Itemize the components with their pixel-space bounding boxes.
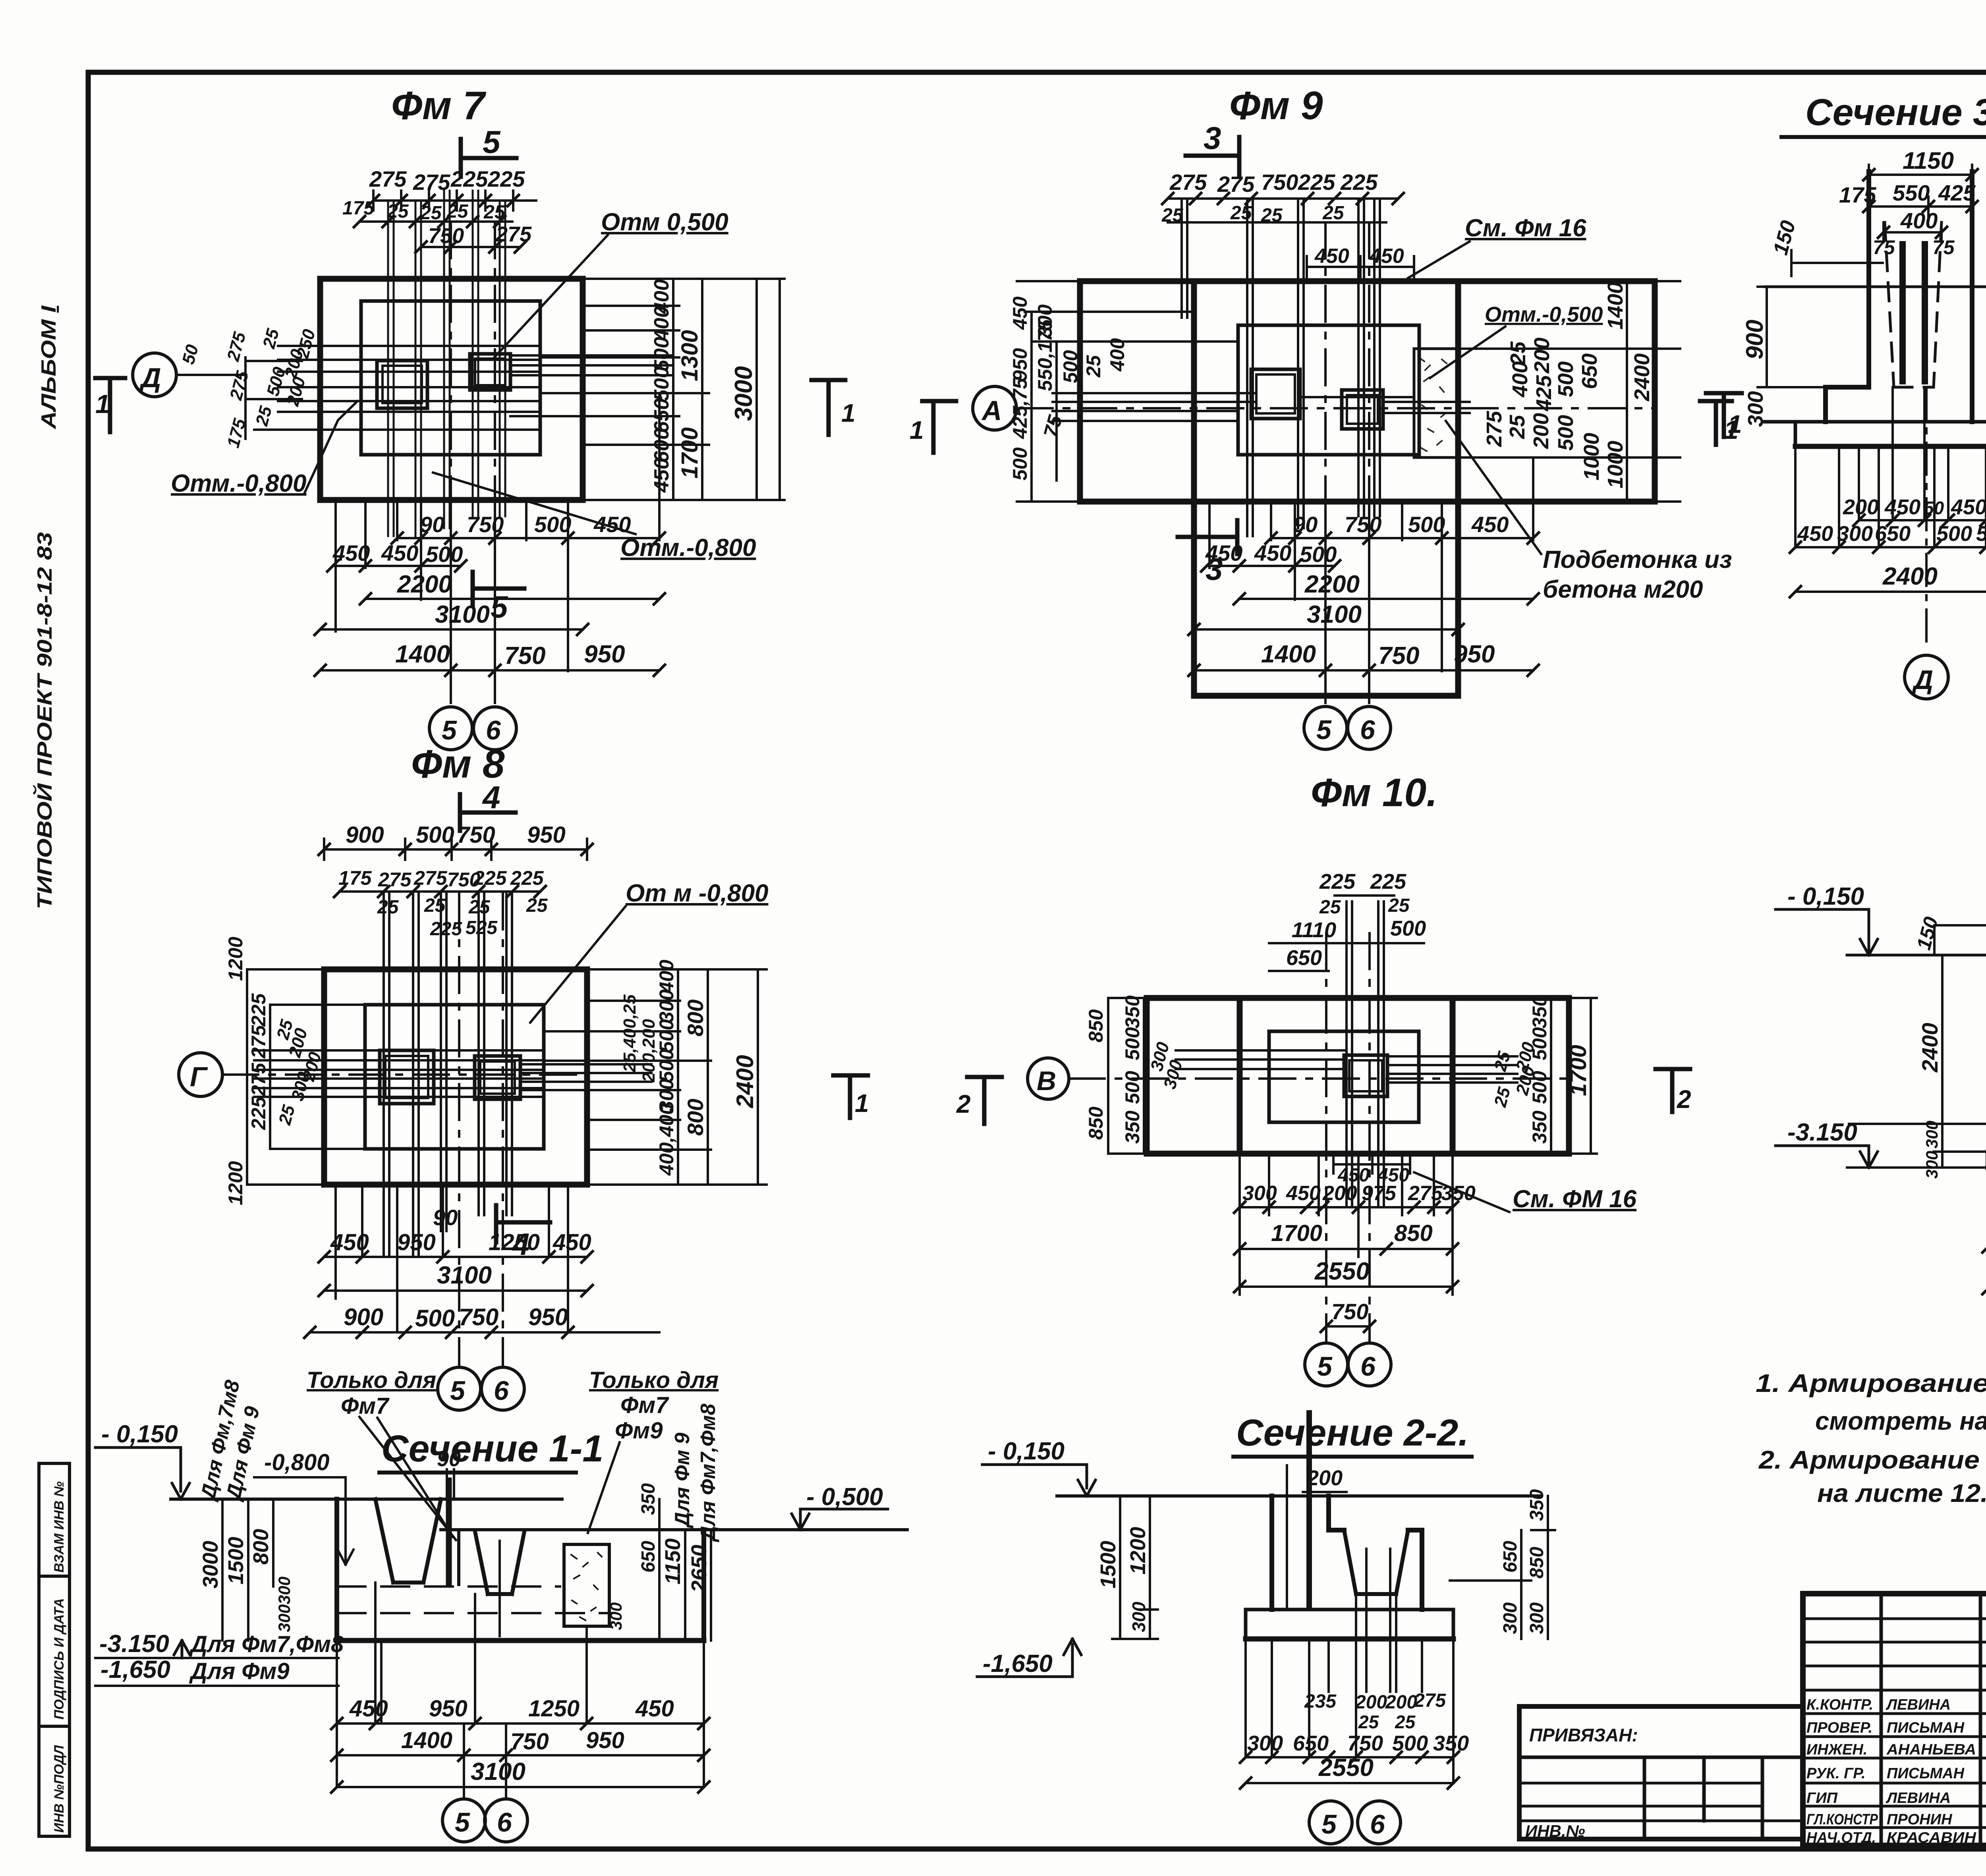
column K2 Фм8: [475, 1056, 520, 1099]
svg-text:235: 235: [1304, 1691, 1337, 1712]
bottom extension verticals Фм10: [1240, 1154, 1453, 1295]
svg-text:350: 350: [638, 1483, 659, 1515]
svg-text:ПОДПИСЬ И ДАТА: ПОДПИСЬ И ДАТА: [52, 1598, 67, 1720]
section mark 1T left: [95, 378, 125, 432]
section cut mark 3 top: [1186, 137, 1239, 175]
svg-text:75: 75: [1873, 236, 1895, 259]
svg-text:500: 500: [650, 337, 673, 371]
svg-text:1: 1: [1728, 410, 1742, 438]
bottom dim row 1400 750 950 Фм9: [1194, 669, 1533, 672]
dim 300 left: [1744, 391, 1768, 427]
svg-text:ЛЕВИНА: ЛЕВИНА: [1886, 1697, 1951, 1713]
svg-text:Д: Д: [139, 362, 161, 393]
svg-text:550,175: 550,175: [1034, 319, 1056, 391]
svg-text:1200: 1200: [224, 1161, 247, 1205]
svg-text:3100: 3100: [437, 1262, 492, 1289]
bottom extension verticals Фм7: [336, 393, 659, 671]
svg-text:950: 950: [1454, 641, 1495, 668]
dim 1150: [1869, 165, 1972, 185]
svg-text:1400: 1400: [401, 1727, 452, 1753]
svg-text:Г: Г: [190, 1061, 208, 1092]
right extension lines Фм8: [520, 969, 767, 1185]
svg-text:500: 500: [534, 512, 571, 537]
svg-text:2: 2: [1677, 1085, 1691, 1114]
right dims s22: [1450, 1496, 1555, 1639]
slab outline Фм10: [1147, 998, 1569, 1154]
ground line -0.150 section 3-3: [1765, 286, 1986, 288]
svg-text:500: 500: [1390, 917, 1426, 940]
svg-text:6: 6: [486, 715, 501, 745]
svg-text:Отм.-0,500: Отм.-0,500: [1485, 303, 1603, 326]
svg-text:450: 450: [381, 540, 418, 566]
axis verticals 5 6 Фм10: [1326, 933, 1370, 1343]
svg-text:2400: 2400: [1917, 1023, 1942, 1073]
Отм 0,500 label: [601, 208, 728, 236]
svg-text:Фм 10.: Фм 10.: [1311, 770, 1437, 815]
dim 2400 s33: [1795, 591, 1986, 593]
svg-text:25: 25: [275, 1103, 299, 1127]
svg-text:450: 450: [1009, 296, 1031, 330]
svg-text:6: 6: [1370, 1809, 1385, 1839]
svg-text:См. ФМ 16: См. ФМ 16: [1513, 1185, 1637, 1213]
bottom section mark 3: [1178, 520, 1237, 554]
left dim ladder lines Фм7: [245, 357, 361, 439]
section mark T2 right of Фм10: [1656, 1069, 1690, 1112]
column K2 Фм7: [470, 354, 510, 390]
bottom dim row 450 950 1250 450: [324, 1256, 587, 1258]
svg-text:1: 1: [841, 399, 856, 427]
axis circle 5 Фм8: [438, 1367, 481, 1410]
svg-text:6: 6: [494, 1376, 509, 1406]
bottom dim row 900 500 750 950 Фм8: [310, 1331, 659, 1334]
axis circle В: [1028, 1058, 1069, 1099]
left dim labels Фм9: [1009, 296, 1128, 481]
От м -0,800 label: [626, 880, 768, 907]
svg-text:750: 750: [1378, 642, 1419, 670]
dim 200 s22: [1306, 1466, 1343, 1490]
svg-text:275: 275: [247, 1062, 270, 1096]
slab outline 3-3: [1765, 422, 1986, 446]
hatched concrete pier s11: [564, 1544, 609, 1626]
svg-text:450: 450: [1314, 245, 1349, 268]
level mark -0,150 s55: [1775, 909, 1878, 955]
label -0,800 s11: [264, 1449, 329, 1475]
dims 450 300 650 500 500: [1795, 546, 1986, 548]
svg-text:500: 500: [650, 367, 673, 401]
svg-text:Фм7: Фм7: [620, 1392, 669, 1418]
bottom dim row 1400 750 950 s11: [337, 1754, 704, 1756]
svg-text:300: 300: [1242, 1182, 1277, 1205]
svg-text:1500: 1500: [224, 1537, 248, 1585]
svg-text:950: 950: [584, 641, 625, 668]
svg-text:850: 850: [1085, 1106, 1107, 1140]
axis Д leader line: [176, 374, 246, 376]
svg-text:ИНЖЕН.: ИНЖЕН.: [1806, 1741, 1867, 1758]
svg-text:650: 650: [1500, 1541, 1521, 1573]
label См. ФМ 16 Фм10: [1513, 1185, 1637, 1213]
section cut mark 5 (top): [461, 139, 516, 177]
axis circle 5 s22: [1309, 1801, 1352, 1844]
svg-text:650: 650: [1875, 522, 1911, 546]
svg-text:АНАНЬЕВА: АНАНЬЕВА: [1886, 1741, 1976, 1758]
svg-text:750: 750: [428, 224, 464, 248]
left bottom stamp column boxes: [39, 1463, 70, 1836]
dim 150 left: [1791, 250, 1883, 276]
svg-text:ТИПОВОЙ ПРОЕКТ 901-8-12 83: ТИПОВОЙ ПРОЕКТ 901-8-12 83: [33, 532, 56, 909]
svg-text:5: 5: [450, 1376, 466, 1406]
svg-text:900: 900: [1741, 320, 1768, 359]
left stamp column labels: [52, 1481, 67, 1833]
dim 400: [1884, 222, 1942, 242]
svg-text:225: 225: [1340, 170, 1378, 195]
socket 1 s11: [375, 1499, 441, 1583]
note line 1: [1756, 1369, 1986, 1397]
svg-text:АЛЬБОМ I: АЛЬБОМ I: [37, 305, 60, 430]
svg-text:500: 500: [1059, 350, 1082, 383]
svg-text:350: 350: [1121, 1110, 1144, 1144]
axis circle 5 Фм10: [1305, 1343, 1348, 1386]
svg-text:200: 200: [283, 374, 309, 408]
label Отм.-0,500: [1485, 303, 1603, 326]
bottom extension verticals Фм8: [336, 1185, 568, 1332]
svg-text:1500: 1500: [1096, 1541, 1120, 1588]
svg-text:400: 400: [655, 959, 678, 993]
svg-text:350: 350: [1121, 995, 1144, 1029]
svg-text:400: 400: [1508, 361, 1532, 398]
rebar horizontals Фм9: [1053, 393, 1470, 421]
svg-text:200: 200: [1529, 413, 1553, 449]
svg-text:Сечение 2-2.: Сечение 2-2.: [1236, 1412, 1469, 1454]
left small dims Фм7: [178, 326, 319, 450]
left margin vertical label: ТИПОВОЙ ПРОЕКТ 901-8-12.83: [33, 532, 56, 909]
note line 3: [1758, 1446, 1986, 1474]
Фм9 title: [1229, 83, 1323, 128]
svg-text:- 0,500: - 0,500: [806, 1483, 883, 1511]
right rotated labels s11: [671, 1404, 720, 1542]
svg-text:25: 25: [259, 326, 283, 351]
svg-text:550: 550: [1893, 180, 1930, 205]
dim 75 75: [1873, 236, 1955, 259]
svg-text:225: 225: [1370, 870, 1406, 894]
svg-text:950: 950: [527, 822, 566, 848]
svg-text:1400: 1400: [1603, 282, 1627, 330]
svg-text:500: 500: [1554, 361, 1578, 397]
svg-text:425: 425: [1532, 375, 1556, 411]
svg-text:3100: 3100: [435, 601, 490, 628]
leader from Только для Фм7 to socket s11: [359, 1417, 456, 1540]
svg-text:ПРИВЯЗАН:: ПРИВЯЗАН:: [1529, 1725, 1638, 1745]
bottom dim 3100: [320, 628, 583, 631]
label См.Фм16: [1465, 214, 1586, 242]
svg-text:500: 500: [1009, 447, 1031, 481]
svg-text:750: 750: [504, 642, 545, 670]
svg-text:Для Фм7,Фм8: Для Фм7,Фм8: [189, 1631, 344, 1657]
svg-text:300: 300: [655, 989, 678, 1023]
level mark -0,500 s11: [792, 1509, 888, 1530]
svg-text:850: 850: [1085, 1009, 1107, 1042]
svg-text:3100: 3100: [1307, 601, 1362, 628]
axis line 5 vertical: [450, 222, 452, 708]
svg-text:75: 75: [1039, 412, 1067, 440]
axis line 6 vertical Фм9: [1368, 222, 1370, 707]
bottom section mark 5: [473, 572, 524, 606]
svg-text:275: 275: [1169, 170, 1207, 195]
axis circle 6 Фм9: [1348, 706, 1391, 749]
svg-text:300: 300: [275, 1604, 294, 1632]
bottom dim 3100 Фм9: [1194, 628, 1458, 631]
svg-text:450: 450: [593, 512, 631, 537]
rebar verticals Фм10: [1347, 901, 1384, 1205]
svg-text:25: 25: [1490, 1085, 1514, 1109]
dim 175 550 425: [1869, 197, 1972, 216]
svg-text:3000: 3000: [730, 366, 757, 421]
axis circle Д: [133, 353, 176, 397]
section mark 2T right of Фм8: [967, 1077, 1002, 1124]
svg-text:500: 500: [655, 1019, 678, 1052]
От м -0,800 leader: [530, 906, 626, 1023]
svg-text:450: 450: [1471, 512, 1509, 537]
svg-text:ГИП: ГИП: [1806, 1790, 1838, 1807]
svg-text:1000: 1000: [1603, 441, 1627, 488]
svg-text:Для Фм7,Фм8: Для Фм7,Фм8: [697, 1404, 720, 1542]
svg-text:500: 500: [415, 1305, 455, 1332]
svg-text:1: 1: [855, 1089, 869, 1117]
svg-text:300: 300: [1128, 1602, 1149, 1632]
svg-text:Фм7: Фм7: [341, 1393, 390, 1419]
svg-text:275: 275: [413, 170, 450, 195]
svg-text:К.КОНТР.: К.КОНТР.: [1806, 1697, 1873, 1713]
svg-text:450: 450: [650, 458, 673, 493]
ground line top s11: [171, 1498, 562, 1501]
bottom dim row 450 950 1250 450 s11: [337, 1722, 704, 1725]
Фм10 title: [1311, 770, 1437, 815]
svg-text:275: 275: [1408, 1182, 1443, 1205]
svg-text:90: 90: [433, 1205, 458, 1230]
svg-text:350: 350: [1526, 1489, 1547, 1521]
svg-text:500: 500: [1300, 542, 1337, 567]
svg-text:300: 300: [1922, 1151, 1941, 1179]
dim 150 s55: [1934, 925, 1986, 955]
svg-text:450: 450: [1951, 495, 1986, 519]
svg-text:500: 500: [1121, 1027, 1144, 1060]
Фм8 title: [411, 742, 505, 786]
rebar horizontals Фм10: [1176, 1050, 1517, 1083]
section mark 1T left of Фм9: [922, 401, 956, 453]
title block left grid: [1803, 1594, 1986, 1845]
step outline Фм9: [1238, 325, 1419, 455]
svg-text:25: 25: [1230, 203, 1252, 224]
right label leader: [588, 1442, 620, 1533]
ground line s55: [1847, 954, 1986, 957]
svg-text:1. Армирование фундаментов Фм: 1. Армирование фундаментов Фм 7, Фм 8, Ф…: [1756, 1369, 1986, 1397]
svg-text:6: 6: [497, 1807, 512, 1837]
note line 4: [1817, 1479, 1986, 1507]
svg-text:850: 850: [1526, 1547, 1547, 1579]
svg-text:Для Фм9: Для Фм9: [189, 1658, 290, 1684]
svg-text:225: 225: [473, 867, 507, 889]
svg-text:25: 25: [377, 897, 399, 918]
slab s22: [1246, 1610, 1453, 1639]
column K1 Фм7: [377, 361, 427, 408]
svg-text:750: 750: [1347, 1731, 1383, 1755]
svg-text:ИНВ №ПОДЛ: ИНВ №ПОДЛ: [52, 1745, 67, 1833]
column Фм10: [1344, 1055, 1387, 1096]
svg-text:750: 750: [1331, 1299, 1368, 1324]
dim ticks s22: [1240, 1752, 1459, 1789]
svg-text:5: 5: [442, 715, 457, 745]
svg-text:500: 500: [1392, 1731, 1428, 1755]
svg-text:1200: 1200: [1126, 1527, 1150, 1575]
svg-text:1250: 1250: [528, 1696, 580, 1722]
См.Фм16 leader: [1408, 241, 1470, 278]
axis circle 6 Фм10: [1348, 1343, 1391, 1386]
bottom dim row 2 Фм7: [333, 565, 461, 567]
svg-text:1700: 1700: [1565, 1045, 1591, 1096]
svg-text:ГЛ.КОНСТР: ГЛ.КОНСТР: [1806, 1811, 1878, 1828]
svg-text:200,200: 200,200: [639, 1019, 659, 1083]
svg-text:2. Армирование фундамента Фм 1: 2. Армирование фундамента Фм 10 смотреть: [1758, 1446, 1986, 1474]
svg-text:1300: 1300: [677, 330, 703, 381]
svg-text:350: 350: [1528, 1110, 1551, 1144]
axis circle Д s33: [1905, 655, 1948, 699]
svg-text:300: 300: [1744, 391, 1768, 427]
Фм7 title: [391, 83, 487, 128]
rebar horizontals Фм7: [278, 346, 672, 430]
svg-text:- 0,150: - 0,150: [1787, 883, 1864, 910]
step outline Фм8: [365, 1005, 544, 1149]
title block outer box: [1803, 1594, 1986, 1845]
svg-text:950: 950: [1009, 348, 1031, 381]
svg-text:-3.150: -3.150: [1787, 1119, 1857, 1146]
label Подбетонка: [1543, 546, 1732, 603]
Отм.-0,800 label (center): [620, 534, 756, 562]
bottom dims 235 200 200 275 s22: [1304, 1690, 1446, 1713]
svg-text:650: 650: [650, 398, 673, 433]
svg-text:650: 650: [638, 1541, 659, 1573]
svg-text:25,400,25: 25,400,25: [620, 994, 639, 1073]
svg-text:225: 225: [247, 1096, 270, 1130]
svg-text:Только для: Только для: [307, 1367, 436, 1393]
svg-text:2400: 2400: [1882, 563, 1938, 590]
privyazan box: [1519, 1706, 1803, 1839]
svg-text:275: 275: [1414, 1690, 1446, 1711]
ledge between sockets s11: [441, 1530, 475, 1585]
label Только для Фм7 Фм9 (right): [589, 1367, 719, 1444]
svg-text:ПРОНИН: ПРОНИН: [1887, 1811, 1953, 1828]
svg-text:450: 450: [635, 1696, 674, 1722]
svg-text:2200: 2200: [397, 571, 452, 598]
axis circle А: [973, 386, 1016, 430]
axis Г horizontal dash line: [222, 1073, 587, 1076]
svg-text:750: 750: [459, 1304, 498, 1330]
svg-text:РУК. ГР.: РУК. ГР.: [1806, 1765, 1866, 1782]
bottom extension verticals Фм9: [1209, 457, 1533, 671]
dim ticks fm9: [1162, 193, 1539, 676]
rebar verticals Фм8: [384, 894, 512, 1255]
svg-text:В: В: [1037, 1066, 1056, 1096]
axis circle 6 s11: [485, 1799, 527, 1842]
section mark T1 left: [1706, 393, 1742, 437]
top dim row 25s: [377, 895, 548, 918]
svg-text:800: 800: [683, 1099, 708, 1136]
svg-text:450: 450: [1369, 245, 1404, 268]
left dim chain s11: [222, 1499, 273, 1641]
left dim rotated labels Фм8: [224, 937, 325, 1205]
-3.150 underline s11: [95, 1641, 338, 1658]
svg-text:350: 350: [1528, 995, 1551, 1029]
svg-text:Подбетонка из: Подбетонка из: [1543, 546, 1732, 573]
См ФМ16 leader Фм10: [1414, 1172, 1509, 1212]
svg-text:25: 25: [1322, 203, 1345, 224]
bold rebar s11: [446, 1480, 452, 1583]
-1,650 underline s11: [95, 1685, 338, 1687]
dim ticks s33: [1790, 169, 1986, 597]
svg-text:2200: 2200: [1304, 571, 1360, 598]
svg-text:400: 400: [1106, 338, 1128, 372]
top dim row 900 500 750 950: [324, 839, 587, 860]
svg-text:5: 5: [491, 589, 508, 624]
dashed levels s11: [338, 1586, 612, 1613]
svg-text:6: 6: [1360, 715, 1376, 745]
rebar bold strokes 3-3: [1903, 244, 1925, 381]
right dims s11: [659, 1499, 711, 1641]
top dim lines Фм9: [1168, 199, 1398, 222]
bottom dims 25 25 s22: [1358, 1712, 1416, 1732]
dims 200 450 50 450: [1859, 519, 1986, 521]
left dims s22: [1112, 1496, 1158, 1639]
projection verticals below slab 3-3: [1795, 387, 1986, 592]
svg-text:90: 90: [420, 512, 444, 537]
bottom dim row 1400 750 950: [320, 669, 659, 672]
svg-text:25: 25: [1319, 897, 1341, 918]
svg-text:950: 950: [429, 1696, 468, 1722]
svg-text:500: 500: [1408, 512, 1445, 537]
svg-text:350: 350: [1433, 1731, 1469, 1755]
right dim verticals Фм8: [678, 969, 758, 1185]
dim 2400 + 300 300 left chain s55: [1934, 955, 1986, 1168]
right dim labels Фм7: [650, 279, 757, 493]
svg-text:ИНВ.№: ИНВ.№: [1525, 1822, 1585, 1840]
svg-text:Сечение 1-1: Сечение 1-1: [381, 1428, 603, 1470]
top bracket 450 450 Фм9: [1307, 256, 1414, 278]
svg-text:500: 500: [426, 542, 463, 567]
svg-text:500: 500: [1121, 1071, 1144, 1104]
axis line 5 vertical Фм9: [1324, 222, 1327, 707]
svg-text:750: 750: [510, 1729, 549, 1754]
svg-text:275: 275: [1217, 172, 1255, 197]
svg-text:От м -0,800: От м -0,800: [626, 880, 768, 907]
svg-text:Сечение 3-3.: Сечение 3-3.: [1805, 91, 1986, 133]
svg-text:ВЗАМ ИНВ №: ВЗАМ ИНВ №: [52, 1481, 67, 1573]
svg-text:А: А: [981, 395, 1002, 426]
svg-text:750: 750: [1261, 170, 1298, 195]
right dim ladder Фм9: [1458, 281, 1680, 502]
svg-text:225: 225: [450, 166, 488, 191]
section mark T1 right of Фм8: [833, 1075, 868, 1118]
svg-text:6: 6: [1360, 1351, 1376, 1382]
svg-text:2550: 2550: [1314, 1258, 1370, 1285]
right dim labels Фм9: [1482, 282, 1654, 488]
svg-text:250: 250: [293, 327, 319, 361]
column outline s22: [1272, 1496, 1329, 1610]
svg-text:25: 25: [1395, 1712, 1416, 1732]
svg-text:Отм 0,500: Отм 0,500: [601, 208, 728, 236]
title underline 3-3: [1781, 135, 1986, 139]
svg-text:750: 750: [1345, 512, 1381, 537]
svg-text:1400: 1400: [395, 641, 450, 668]
title block signature rows: [1806, 1697, 1977, 1846]
svg-text:450: 450: [1254, 540, 1291, 566]
